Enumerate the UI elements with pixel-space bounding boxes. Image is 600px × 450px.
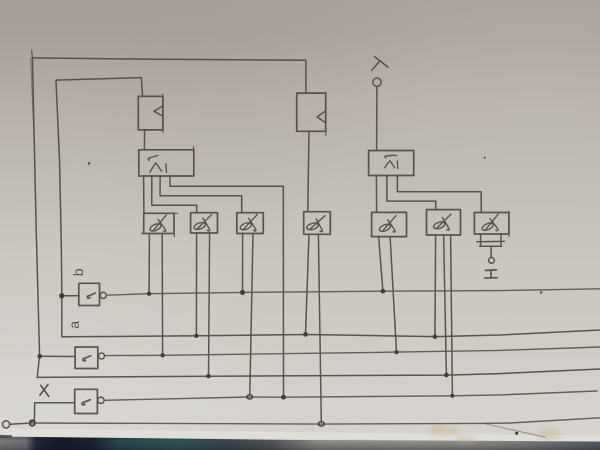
wire N1 output bus1 <box>106 289 600 295</box>
label x (rotated) <box>40 384 49 396</box>
junction B input1 on bus2 <box>194 334 199 339</box>
inverter N3 box <box>75 389 98 413</box>
wire F input 1 to bus2 <box>434 235 437 337</box>
wire C input 2 to bus5 <box>250 234 253 396</box>
wire left vertical 1 down to N2 input and bus4 <box>32 58 600 378</box>
wire stray diagonal at bus6 end <box>483 423 546 437</box>
wire N2 output bus3 <box>105 347 600 356</box>
junction D input1 on bus2 <box>303 332 308 337</box>
wire top bus from box2 output to left side <box>32 58 306 93</box>
wire A input 1 to bus1 <box>148 234 150 294</box>
and-gate C box <box>237 213 263 234</box>
inverter N1 bubble <box>100 292 106 298</box>
junction D input2 on bus6 (open) <box>318 422 324 426</box>
wire OR2 input from AND E <box>375 176 377 213</box>
wire second horizontal from box1 output to left vertical 2 <box>56 78 143 97</box>
wire D input 2 to bus6 <box>318 234 321 421</box>
junction on net a at N2 input <box>37 354 42 359</box>
label >=1 of OR2 (rotated) <box>385 155 398 168</box>
buffer box2 <box>297 93 326 131</box>
wire N1 input stub <box>62 295 79 297</box>
junction C input1 on bus1 <box>240 290 245 295</box>
inverter N3 bubble <box>98 397 104 403</box>
wire OR2 input from AND G <box>397 176 481 213</box>
or-gate OR1 box <box>139 150 194 176</box>
wire B input 2 to bus4 <box>209 233 210 376</box>
and-gate F box <box>427 210 461 235</box>
open junction ovals <box>30 395 325 426</box>
label Y (rotated) <box>372 57 388 71</box>
ink speck <box>88 162 90 164</box>
junction E input2 on bus3 <box>394 350 398 354</box>
inverter N2 bubble <box>99 353 105 359</box>
inverter N1 box <box>79 283 100 305</box>
terminal x input circle <box>3 421 10 428</box>
svg-text:a: a <box>66 321 82 329</box>
wire box2 to AND D <box>308 131 309 211</box>
wire bus6 <box>30 418 600 424</box>
or-gate OR2 box <box>369 151 414 176</box>
and-gate B box <box>191 213 218 233</box>
junction dots <box>37 289 454 400</box>
wire F input 3 to bus5 <box>451 235 453 396</box>
labels a and b (rotated text) <box>66 268 86 329</box>
wire box1 to OR1 <box>143 130 145 150</box>
junction A input2 on bus3 <box>160 353 165 358</box>
label >=1 of OR1 (rotated) <box>148 156 166 173</box>
wire OR1 input from AND B <box>152 176 197 213</box>
and-gate A box <box>144 213 174 233</box>
table dark band at bottom <box>0 437 600 450</box>
wire OR1 input from AND A <box>143 176 145 213</box>
ink speck <box>484 157 486 159</box>
wire C input 1 to bus1 <box>242 234 244 293</box>
wire N2 input stub <box>40 355 75 357</box>
junction x terminal on bus6 <box>30 420 35 425</box>
terminal Y circle <box>373 78 381 86</box>
wire OR2 input from AND F <box>387 176 436 210</box>
junction B input2 on bus4 <box>206 374 211 379</box>
and-gate G box <box>474 213 509 235</box>
terminal H circle <box>489 258 495 264</box>
paper bottom edge highlight <box>0 429 600 442</box>
wire G output ladder to H <box>477 234 505 257</box>
wire left vertical 1 doubled stroke <box>31 59 34 136</box>
ink speck on bus1 <box>540 291 542 293</box>
and-gate D box <box>304 212 331 235</box>
yellow stains bottom right <box>428 425 561 446</box>
junction C input2 on bus5 (open) <box>247 395 253 399</box>
wire Y to OR2 <box>376 86 378 150</box>
junction OR1 input4 on bus5 <box>281 395 286 400</box>
junction E input1 on bus1 <box>381 289 386 294</box>
wire left vertical 2 down to N1 input and bus2 <box>56 80 600 337</box>
wire F input 2 to bus4 <box>444 235 447 375</box>
buffer box1 <box>138 96 163 130</box>
wire overshoot tick top-left corner <box>31 51 34 61</box>
wire junction up to N3 input <box>31 403 75 423</box>
wire OR1 input from AND C <box>160 176 242 213</box>
wire E input 1 to bus1 <box>379 237 383 292</box>
junction on net b at N1 input <box>59 293 64 298</box>
wire B input 1 to bus2 <box>195 233 197 336</box>
and-gate E box <box>372 212 407 236</box>
svg-text:b: b <box>70 268 86 276</box>
wire N3 output bus5 <box>104 391 597 400</box>
junction A input1 on bus1 <box>147 291 152 296</box>
ink specks <box>88 157 543 435</box>
wire E input 2 to bus3 <box>390 237 396 353</box>
wire D input 1 to bus2 <box>306 234 310 334</box>
junction F input1 on bus2 <box>433 334 438 339</box>
wire x terminal to junction <box>10 423 28 424</box>
dark speck near paper edge <box>515 432 518 435</box>
label H (rotated) <box>485 270 497 278</box>
inverter N2 box <box>75 347 98 369</box>
wire OR1 input from bus5 long drop <box>170 176 284 397</box>
junction F input2 on bus4 <box>444 373 449 378</box>
wire A input 2 to bus3 <box>161 234 163 356</box>
junction F input3 on bus5 <box>450 394 454 398</box>
